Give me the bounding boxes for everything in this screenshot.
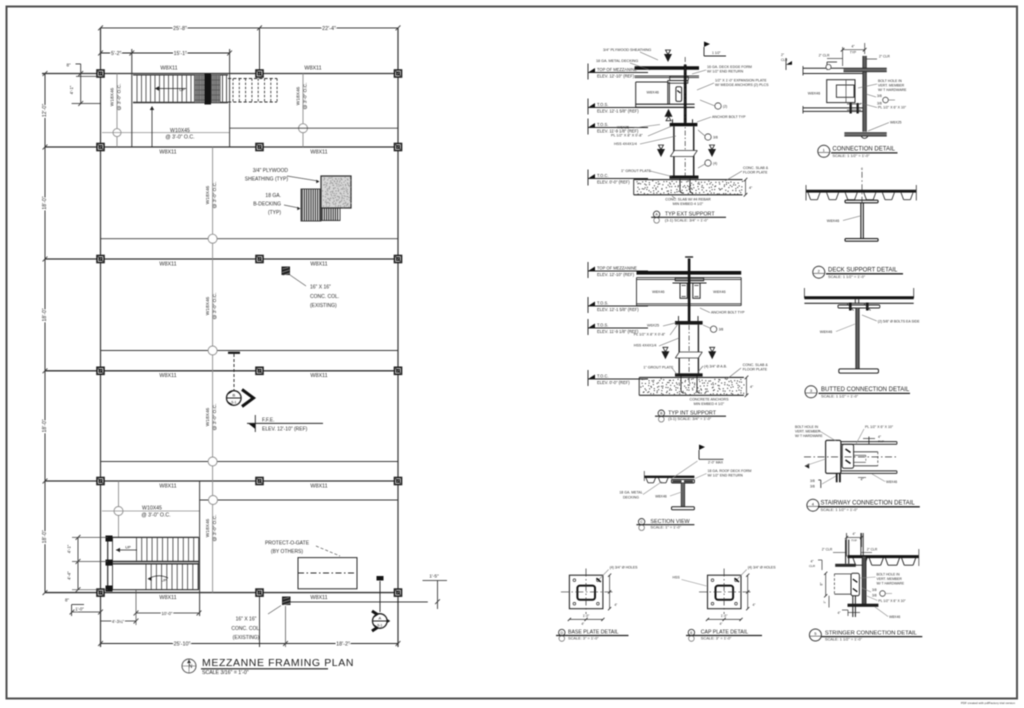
- svg-text:1" GROUT PLATE: 1" GROUT PLATE: [643, 366, 674, 370]
- column marker: [256, 589, 263, 596]
- detail E plate square: [708, 575, 742, 609]
- detail C flag: [698, 450, 700, 459]
- plywood sheathing patch: [321, 176, 351, 208]
- svg-text:T.O.S.: T.O.S.: [597, 323, 608, 328]
- svg-text:18'-0": 18'-0": [42, 530, 48, 543]
- detail 5 left dim: [825, 573, 827, 596]
- detail A beam elevation: [636, 81, 668, 83]
- detail title E CAP PLATE DETAIL: [688, 629, 694, 635]
- svg-text:D: D: [560, 631, 563, 635]
- svg-text:18'-0": 18'-0": [42, 196, 48, 209]
- svg-text:3/8: 3/8: [719, 328, 724, 332]
- svg-text:16" X 16": 16" X 16": [236, 617, 257, 623]
- svg-text:16 GA. DECK EDGE FORM: 16 GA. DECK EDGE FORM: [707, 65, 752, 69]
- dim 25'-10" / 18'-2" bottom: [101, 643, 399, 645]
- svg-text:A: A: [378, 616, 381, 621]
- svg-text:W8X11: W8X11: [310, 261, 327, 267]
- beam splice line bay5 right of stair: [200, 499, 398, 501]
- stair landing arrow below: [151, 107, 153, 147]
- svg-text:SHEATHING (TYP): SHEATHING (TYP): [245, 177, 289, 183]
- svg-text:W8X46: W8X46: [713, 290, 725, 294]
- bottom stair box: [108, 536, 199, 538]
- detail B beam band: [637, 277, 742, 279]
- svg-text:W8X11: W8X11: [159, 373, 176, 379]
- detail title B TYP INT SUPPORT: [658, 410, 664, 416]
- column marker: [97, 144, 104, 151]
- svg-text:(2) 5/8" Ø BOLTS EA SIDE: (2) 5/8" Ø BOLTS EA SIDE: [878, 320, 920, 324]
- detail A top right flag: [703, 47, 705, 56]
- svg-text:W10X45: W10X45: [170, 128, 190, 134]
- svg-text:15'-1": 15'-1": [174, 51, 187, 57]
- svg-text:CLR: CLR: [809, 564, 816, 568]
- svg-text:W8X11: W8X11: [304, 66, 321, 72]
- svg-text:W8X11: W8X11: [310, 149, 327, 155]
- bottom stair treads upper flight: [136, 537, 138, 561]
- bottom stair dims 4'-1" 4'-4": [77, 537, 79, 589]
- column marker: [256, 367, 263, 374]
- detail title D BASE PLATE DETAIL: [559, 629, 565, 635]
- svg-text:SCALE: 1 1/2" = 1'-0": SCALE: 1 1/2" = 1'-0": [832, 153, 870, 158]
- svg-text:ELEV. 12'-10" (REF): ELEV. 12'-10" (REF): [597, 272, 635, 277]
- elevation flag T.O.S.: [588, 123, 595, 128]
- column marker: [256, 144, 263, 151]
- svg-text:W8X46: W8X46: [646, 91, 658, 95]
- left building edge column line: [100, 28, 102, 647]
- svg-text:MIN EMBED 4 1/2": MIN EMBED 4 1/2": [694, 402, 725, 406]
- detail title A TYP EXT SUPPORT: [653, 211, 659, 217]
- svg-text:@ 3'-0" O.C.: @ 3'-0" O.C.: [141, 512, 170, 518]
- dim line 5'-2" / 15'-1": [101, 52, 230, 54]
- detail 5 bent plate angle: [835, 564, 856, 567]
- bottom stair landing double line: [108, 561, 199, 563]
- svg-text:PL 1/2" X 6" X 10": PL 1/2" X 6" X 10": [878, 599, 906, 603]
- svg-text:ANCHOR BOLT TYP: ANCHOR BOLT TYP: [711, 311, 745, 315]
- svg-text:C: C: [640, 520, 643, 524]
- svg-text:W8X46: W8X46: [808, 92, 820, 96]
- joist centerline right bay top: [302, 74, 304, 148]
- svg-text:W/ 1/2" END RETURN: W/ 1/2" END RETURN: [707, 70, 744, 74]
- detail D right dim: [609, 575, 611, 609]
- svg-text:BOLT HOLE IN: BOLT HOLE IN: [877, 573, 901, 577]
- detail 4 top bolt tick: [868, 437, 870, 445]
- column marker: [97, 367, 104, 374]
- elevation flag T.O.S.: [588, 302, 595, 307]
- svg-text:ELEV. 0'-0" (REF): ELEV. 0'-0" (REF): [597, 380, 630, 385]
- svg-text:W6X25: W6X25: [890, 121, 902, 125]
- detail D HSS tube: [577, 586, 595, 600]
- svg-text:W8X11: W8X11: [159, 483, 176, 489]
- svg-text:TYP: TYP: [850, 51, 856, 55]
- svg-text:3/8: 3/8: [872, 594, 877, 598]
- detail title 5 STRINGER CONNECTION DETAIL: [809, 629, 821, 641]
- svg-text:VERT. MEMBER: VERT. MEMBER: [878, 84, 905, 88]
- detail C bottom flange: [672, 507, 695, 510]
- detail C deck line: [644, 476, 694, 478]
- svg-text:1" GROUT PLATE: 1" GROUT PLATE: [621, 169, 652, 173]
- svg-text:N: N: [189, 664, 193, 670]
- detail D centerlines: [585, 569, 587, 615]
- svg-text:SCALE: 1 1/2" = 1'-0": SCALE: 1 1/2" = 1'-0": [828, 274, 866, 279]
- svg-text:T.O.C.: T.O.C.: [597, 374, 609, 379]
- svg-text:@ 3'-0" O.C.: @ 3'-0" O.C.: [303, 83, 309, 110]
- detail 3 bolts: [849, 303, 852, 311]
- detail A concrete slab: [634, 179, 743, 181]
- detail 4 connection plate: [842, 444, 853, 468]
- svg-text:T.O.C.: T.O.C.: [597, 173, 609, 178]
- svg-text:(3-1) SCALE: 3/4" = 1'-0": (3-1) SCALE: 3/4" = 1'-0": [665, 217, 709, 222]
- svg-text:W/ 1/2" END RETURN: W/ 1/2" END RETURN: [708, 474, 744, 478]
- detail E right dim: [747, 575, 749, 609]
- svg-text:3/4" PLYWOOD SHEATHING: 3/4" PLYWOOD SHEATHING: [603, 48, 651, 52]
- detail 5 connection plate: [851, 573, 859, 596]
- detail title 3 BUTTED CONNECTION DETAIL: [805, 386, 817, 398]
- svg-text:1'-5": 1'-5": [429, 574, 439, 580]
- left dimension chain: [44, 74, 46, 593]
- svg-text:(EXISTING): (EXISTING): [310, 303, 337, 309]
- svg-text:W8X11: W8X11: [310, 373, 327, 379]
- svg-text:18 GA. ROOF DECK FORM: 18 GA. ROOF DECK FORM: [708, 469, 752, 473]
- svg-text:4": 4": [614, 603, 617, 607]
- top stair break bar: [205, 74, 212, 105]
- svg-text:PL 1/2" X 8" X 0'-8": PL 1/2" X 8" X 0'-8": [634, 333, 666, 337]
- svg-text:10'-0": 10'-0": [162, 611, 173, 616]
- svg-text:(4): (4): [713, 162, 717, 166]
- svg-text:CONNECTION DETAIL: CONNECTION DETAIL: [832, 147, 895, 153]
- dim 1'-0" bottom: [72, 611, 101, 613]
- svg-text:25'-8": 25'-8": [173, 26, 187, 32]
- svg-text:W/ T HARDWARE: W/ T HARDWARE: [877, 582, 905, 586]
- dim 10'-0" bottom: [136, 612, 199, 614]
- svg-text:(4) 3/4" Ø HOLES: (4) 3/4" Ø HOLES: [610, 566, 639, 570]
- detail 4 beam plan lines: [841, 441, 897, 443]
- svg-text:4": 4": [753, 603, 756, 607]
- svg-text:4": 4": [581, 622, 584, 626]
- svg-text:BOLT HOLE IN: BOLT HOLE IN: [795, 425, 819, 429]
- svg-text:BOLT HOLE IN: BOLT HOLE IN: [878, 79, 902, 83]
- detail B deck lines: [637, 271, 742, 275]
- detail B centerline: [688, 325, 690, 386]
- column marker: [395, 144, 402, 151]
- grid row beam lines: [42, 73, 398, 75]
- svg-text:W10X45: W10X45: [142, 506, 162, 512]
- svg-text:22'-4": 22'-4": [322, 26, 336, 32]
- bottom stair up arrow lower: [148, 576, 168, 579]
- svg-text:W8X11: W8X11: [159, 261, 176, 267]
- svg-text:2'-0" MAX: 2'-0" MAX: [708, 461, 724, 465]
- svg-text:PL 1/2" X 8" X 0'-8": PL 1/2" X 8" X 0'-8": [611, 134, 643, 138]
- detail 5 bottom dim: [842, 609, 848, 611]
- svg-text:18 GA. METAL DECKING: 18 GA. METAL DECKING: [596, 59, 638, 63]
- svg-text:DECK SUPPORT DETAIL: DECK SUPPORT DETAIL: [828, 268, 898, 274]
- detail 5 anchor bolt below: [852, 596, 854, 617]
- svg-text:(EXISTING): (EXISTING): [233, 635, 260, 641]
- svg-text:1'-0": 1'-0": [583, 614, 590, 618]
- svg-text:(BY OTHERS): (BY OTHERS): [271, 549, 303, 555]
- top stair double line gap: [222, 75, 224, 103]
- svg-text:W18X46: W18X46: [205, 185, 211, 204]
- dim 4'-1" top-left: [80, 74, 82, 104]
- svg-text:HSS 4X4X1/4: HSS 4X4X1/4: [634, 344, 657, 348]
- detail A base plate: [670, 176, 699, 179]
- detail 5 bottom plate: [848, 604, 879, 607]
- svg-text:ELEV. 12'-1 5/8" (REF): ELEV. 12'-1 5/8" (REF): [597, 307, 639, 312]
- detail E centerlines: [723, 569, 725, 615]
- svg-text:2" CLR: 2" CLR: [879, 55, 890, 59]
- svg-text:2" CLR: 2" CLR: [819, 54, 830, 58]
- top stair up-run dashed treads: [228, 78, 277, 80]
- svg-text:SCALE: 1 1/2" = 1'-0": SCALE: 1 1/2" = 1'-0": [825, 637, 863, 642]
- svg-text:ELEV. 12'-10" (REF): ELEV. 12'-10" (REF): [597, 73, 635, 78]
- svg-text:4'-4": 4'-4": [67, 571, 72, 580]
- svg-text:3/8: 3/8: [810, 485, 815, 489]
- column marker: [97, 589, 104, 596]
- svg-text:W18X46: W18X46: [296, 86, 302, 105]
- svg-text:PL 1/2" X 6" X 10": PL 1/2" X 6" X 10": [878, 106, 907, 110]
- svg-text:SCALE: 1 1/2" = 1'-0": SCALE: 1 1/2" = 1'-0": [821, 393, 859, 398]
- svg-text:CLR: CLR: [781, 58, 788, 62]
- svg-text:(4) 3/4" Ø A.B.: (4) 3/4" Ø A.B.: [704, 364, 727, 368]
- detail 3 seat plate: [838, 305, 880, 308]
- column marker: [395, 256, 402, 263]
- joist centerline middle: [212, 147, 214, 593]
- svg-text:ELEV. 12'-1 5/8" (REF): ELEV. 12'-1 5/8" (REF): [597, 108, 639, 113]
- svg-text:S-1: S-1: [377, 624, 382, 628]
- svg-text:W18X46: W18X46: [205, 407, 211, 426]
- svg-text:PL 1/2" X 6" X 10": PL 1/2" X 6" X 10": [865, 425, 894, 429]
- svg-text:1/2" X 1'-0" EXPANSION PLATE: 1/2" X 1'-0" EXPANSION PLATE: [715, 79, 767, 83]
- section marker A: [379, 581, 381, 612]
- svg-text:TYP: TYP: [878, 440, 884, 444]
- section marker B with dashed line: [233, 354, 235, 390]
- svg-text:MIN EMBED 4 1/2": MIN EMBED 4 1/2": [673, 202, 704, 206]
- svg-text:4'-1": 4'-1": [69, 85, 74, 94]
- svg-text:¢: ¢: [861, 167, 863, 171]
- top stair dense overlap hatch: [194, 75, 220, 103]
- detail 2 deck slab line: [806, 190, 916, 193]
- beam splice line bay3: [101, 350, 399, 352]
- svg-text:@ 3'-0" O.C.: @ 3'-0" O.C.: [212, 293, 218, 320]
- detail 1 top dims: [842, 47, 844, 66]
- svg-text:VERT. MEMBER: VERT. MEMBER: [877, 577, 903, 581]
- beam splice line bay1 left: [102, 132, 230, 134]
- detail title C SECTION VIEW: [638, 519, 644, 525]
- detail B anchors: [680, 377, 682, 391]
- detail B column tube: [678, 325, 680, 374]
- elevation flag T.O.C.: [588, 174, 595, 179]
- svg-text:BUTTED CONNECTION DETAIL: BUTTED CONNECTION DETAIL: [821, 387, 910, 393]
- svg-text:@ 3'-0" O.C.: @ 3'-0" O.C.: [212, 182, 218, 209]
- detail 5 deck line: [848, 555, 919, 558]
- top stair direction arrow: [155, 88, 186, 90]
- svg-text:VERT. MEMBER: VERT. MEMBER: [795, 430, 821, 434]
- svg-text:PROTECT-O-GATE: PROTECT-O-GATE: [265, 541, 310, 547]
- svg-text:2" CLR: 2" CLR: [867, 548, 878, 552]
- svg-text:1 1/2": 1 1/2": [712, 51, 722, 55]
- svg-text:SCALE 3/16" = 1'-0": SCALE 3/16" = 1'-0": [202, 670, 249, 676]
- svg-text:8": 8": [65, 598, 69, 603]
- svg-text:18 GA.: 18 GA.: [265, 193, 281, 199]
- bottom stair treads lower flight: [145, 564, 147, 590]
- svg-text:18'-2": 18'-2": [336, 642, 350, 648]
- svg-text:DECKING: DECKING: [623, 495, 639, 499]
- detail A anchor bolts: [679, 179, 681, 190]
- joist line bottom-left bay: [102, 510, 200, 512]
- svg-text:UP: UP: [161, 578, 167, 583]
- svg-text:W18X46: W18X46: [110, 87, 116, 106]
- column marker: [256, 256, 263, 263]
- svg-text:W8X11: W8X11: [159, 595, 176, 601]
- detail 5 deck flutes: [853, 558, 856, 565]
- detail D bolt holes: [573, 579, 576, 582]
- column marker: [395, 478, 402, 485]
- detail A end connection plate: [676, 87, 682, 102]
- detail 2 centerline: [861, 172, 863, 203]
- svg-text:2" CLR: 2" CLR: [822, 548, 833, 552]
- existing concrete column (mid plan): [282, 267, 291, 276]
- svg-text:W8X46: W8X46: [655, 495, 667, 499]
- svg-text:CONC. SLAB &: CONC. SLAB &: [743, 166, 769, 170]
- detail B cap plate: [675, 321, 703, 325]
- svg-text:SCALE: 1 1/2" = 1'-0": SCALE: 1 1/2" = 1'-0": [821, 507, 859, 512]
- svg-text:@ 3'-0" O.C.: @ 3'-0" O.C.: [165, 135, 194, 141]
- svg-text:W8X11: W8X11: [310, 595, 327, 601]
- svg-text:12'-0": 12'-0": [42, 104, 48, 117]
- svg-text:8": 8": [820, 583, 824, 586]
- svg-text:18'-0": 18'-0": [42, 419, 48, 432]
- svg-text:CONC. COL.: CONC. COL.: [231, 626, 260, 632]
- detail A cap plate: [670, 123, 698, 126]
- detail 4 centerline: [804, 456, 897, 458]
- svg-text:T.O.S.: T.O.S.: [597, 122, 608, 127]
- svg-text:1'-0": 1'-0": [721, 614, 728, 618]
- detail 3 web: [856, 308, 859, 369]
- svg-text:FLOOR PLATE: FLOOR PLATE: [743, 368, 768, 372]
- svg-text:F.F.E.: F.F.E.: [262, 418, 275, 424]
- svg-text:ELEV. 12'-10" (REF): ELEV. 12'-10" (REF): [262, 426, 308, 432]
- column marker: [97, 70, 104, 77]
- column marker: [256, 478, 263, 485]
- elevation flag TOP OF MEZZANINE: [588, 68, 595, 73]
- svg-text:W/ T HARDWARE: W/ T HARDWARE: [878, 88, 907, 92]
- svg-text:@ 3'-0" O.C.: @ 3'-0" O.C.: [212, 404, 218, 431]
- detail 1 beam lines: [803, 67, 844, 69]
- svg-text:3/8: 3/8: [713, 136, 718, 140]
- detail E bottom dim: [708, 618, 742, 620]
- detail A deck lines: [635, 66, 699, 69]
- detail C top flange: [672, 480, 695, 484]
- elevation flag T.O.S.: [588, 324, 595, 329]
- svg-text:SCALE: 1" = 1'-0": SCALE: 1" = 1'-0": [650, 525, 681, 530]
- svg-text:25'-10": 25'-10": [174, 642, 191, 648]
- svg-text:W8X46: W8X46: [827, 219, 839, 223]
- detail 1 top plate: [844, 68, 887, 72]
- detail B hanger plates: [675, 278, 704, 281]
- svg-text:(4) 3/4" Ø HOLES: (4) 3/4" Ø HOLES: [748, 566, 777, 570]
- svg-text:T.O.S.: T.O.S.: [597, 301, 608, 306]
- column marker: [395, 589, 402, 596]
- svg-text:W8X46: W8X46: [886, 480, 897, 484]
- column marker: [97, 478, 104, 485]
- svg-text:STRINGER CONNECTION DETAIL: STRINGER CONNECTION DETAIL: [825, 630, 918, 636]
- detail B concrete dim: [746, 377, 748, 395]
- svg-text:STAIRWAY CONNECTION DETAIL: STAIRWAY CONNECTION DETAIL: [821, 501, 916, 507]
- detail A column: [684, 65, 687, 123]
- middle column line bottom stub: [259, 593, 261, 647]
- elevation flag T.O.S.: [588, 103, 595, 108]
- stair enclosure wall left (top stair): [131, 49, 133, 147]
- detail 1 base plate: [844, 133, 886, 137]
- svg-text:4'-3¼": 4'-3¼": [112, 619, 125, 624]
- svg-text:5'-2": 5'-2": [111, 51, 121, 57]
- detail B arrows: [661, 351, 669, 359]
- detail A expansion plate: [670, 76, 689, 80]
- detail E HSS tube: [716, 586, 734, 600]
- svg-text:SCALE: 3" = 1'-0": SCALE: 3" = 1'-0": [701, 636, 732, 641]
- stair north wall offset line: [76, 75, 99, 77]
- svg-text:CONCRETE ANCHORS: CONCRETE ANCHORS: [690, 398, 730, 402]
- detail 1 column hatched: [863, 56, 867, 132]
- svg-text:8": 8": [66, 63, 71, 68]
- detail 3 bottom flange: [839, 369, 879, 373]
- detail C web: [681, 483, 685, 507]
- svg-text:CONC. SLAB W/ #4 REBAR: CONC. SLAB W/ #4 REBAR: [665, 198, 711, 202]
- svg-text:S-1: S-1: [231, 401, 236, 405]
- detail 4 channel end block: [826, 440, 841, 473]
- detail D bottom dim: [569, 618, 603, 620]
- detail B column through beam: [688, 259, 691, 322]
- column marker: [256, 70, 263, 77]
- svg-text:W8X46: W8X46: [652, 290, 664, 294]
- F.F.E. elevation note: [248, 423, 255, 429]
- right building edge column line: [397, 28, 399, 647]
- svg-text:18'-0": 18'-0": [42, 308, 48, 321]
- detail 3 web splice box: [854, 299, 856, 303]
- svg-text:W8X11: W8X11: [159, 149, 176, 155]
- detail B base plate: [675, 373, 703, 376]
- detail E bolt holes: [711, 579, 714, 582]
- svg-text:UP: UP: [179, 87, 185, 92]
- detail C deck flutes: [646, 478, 648, 483]
- svg-text:W8X11: W8X11: [310, 483, 327, 489]
- beam splice line bay2: [101, 238, 399, 240]
- b-decking hatch patch: [301, 189, 321, 221]
- svg-text:CONC. COL.: CONC. COL.: [310, 294, 339, 300]
- svg-text:TOP OF MEZZANINE: TOP OF MEZZANINE: [597, 67, 637, 72]
- protect-o-gate dashed enclosure: [298, 558, 357, 589]
- stair/dim wall (bottom right of stair): [199, 481, 201, 616]
- svg-text:W/ WEDGE ANCHORS (2) PLCS: W/ WEDGE ANCHORS (2) PLCS: [715, 83, 769, 87]
- detail A arrows: [664, 54, 672, 62]
- svg-text:@ 3'-0" O.C.: @ 3'-0" O.C.: [117, 84, 123, 111]
- top stair treads: [133, 74, 228, 76]
- column marker: [395, 367, 402, 374]
- svg-text:ELEV. 0'-0" (REF): ELEV. 0'-0" (REF): [597, 179, 630, 184]
- detail 2 end ticks: [805, 185, 807, 201]
- detail 1 end plate connection: [827, 80, 855, 103]
- dim line 25'-8" / 22'-4": [101, 27, 399, 29]
- stair enclosure wall right (top stair): [229, 49, 231, 147]
- detail title 4 STAIRWAY CONNECTION DETAIL: [807, 499, 819, 511]
- detail title 2 DECK SUPPORT DETAIL: [813, 266, 825, 278]
- svg-text:HSS: HSS: [673, 576, 681, 580]
- svg-text:ANCHOR BOLT TYP: ANCHOR BOLT TYP: [712, 115, 746, 119]
- column marker: [395, 70, 402, 77]
- svg-text:W8X46: W8X46: [820, 330, 832, 334]
- svg-text:3/8: 3/8: [810, 479, 815, 483]
- detail D plate square: [569, 575, 603, 609]
- svg-text:T.O.S.: T.O.S.: [597, 102, 608, 107]
- svg-text:(2): (2): [723, 105, 727, 109]
